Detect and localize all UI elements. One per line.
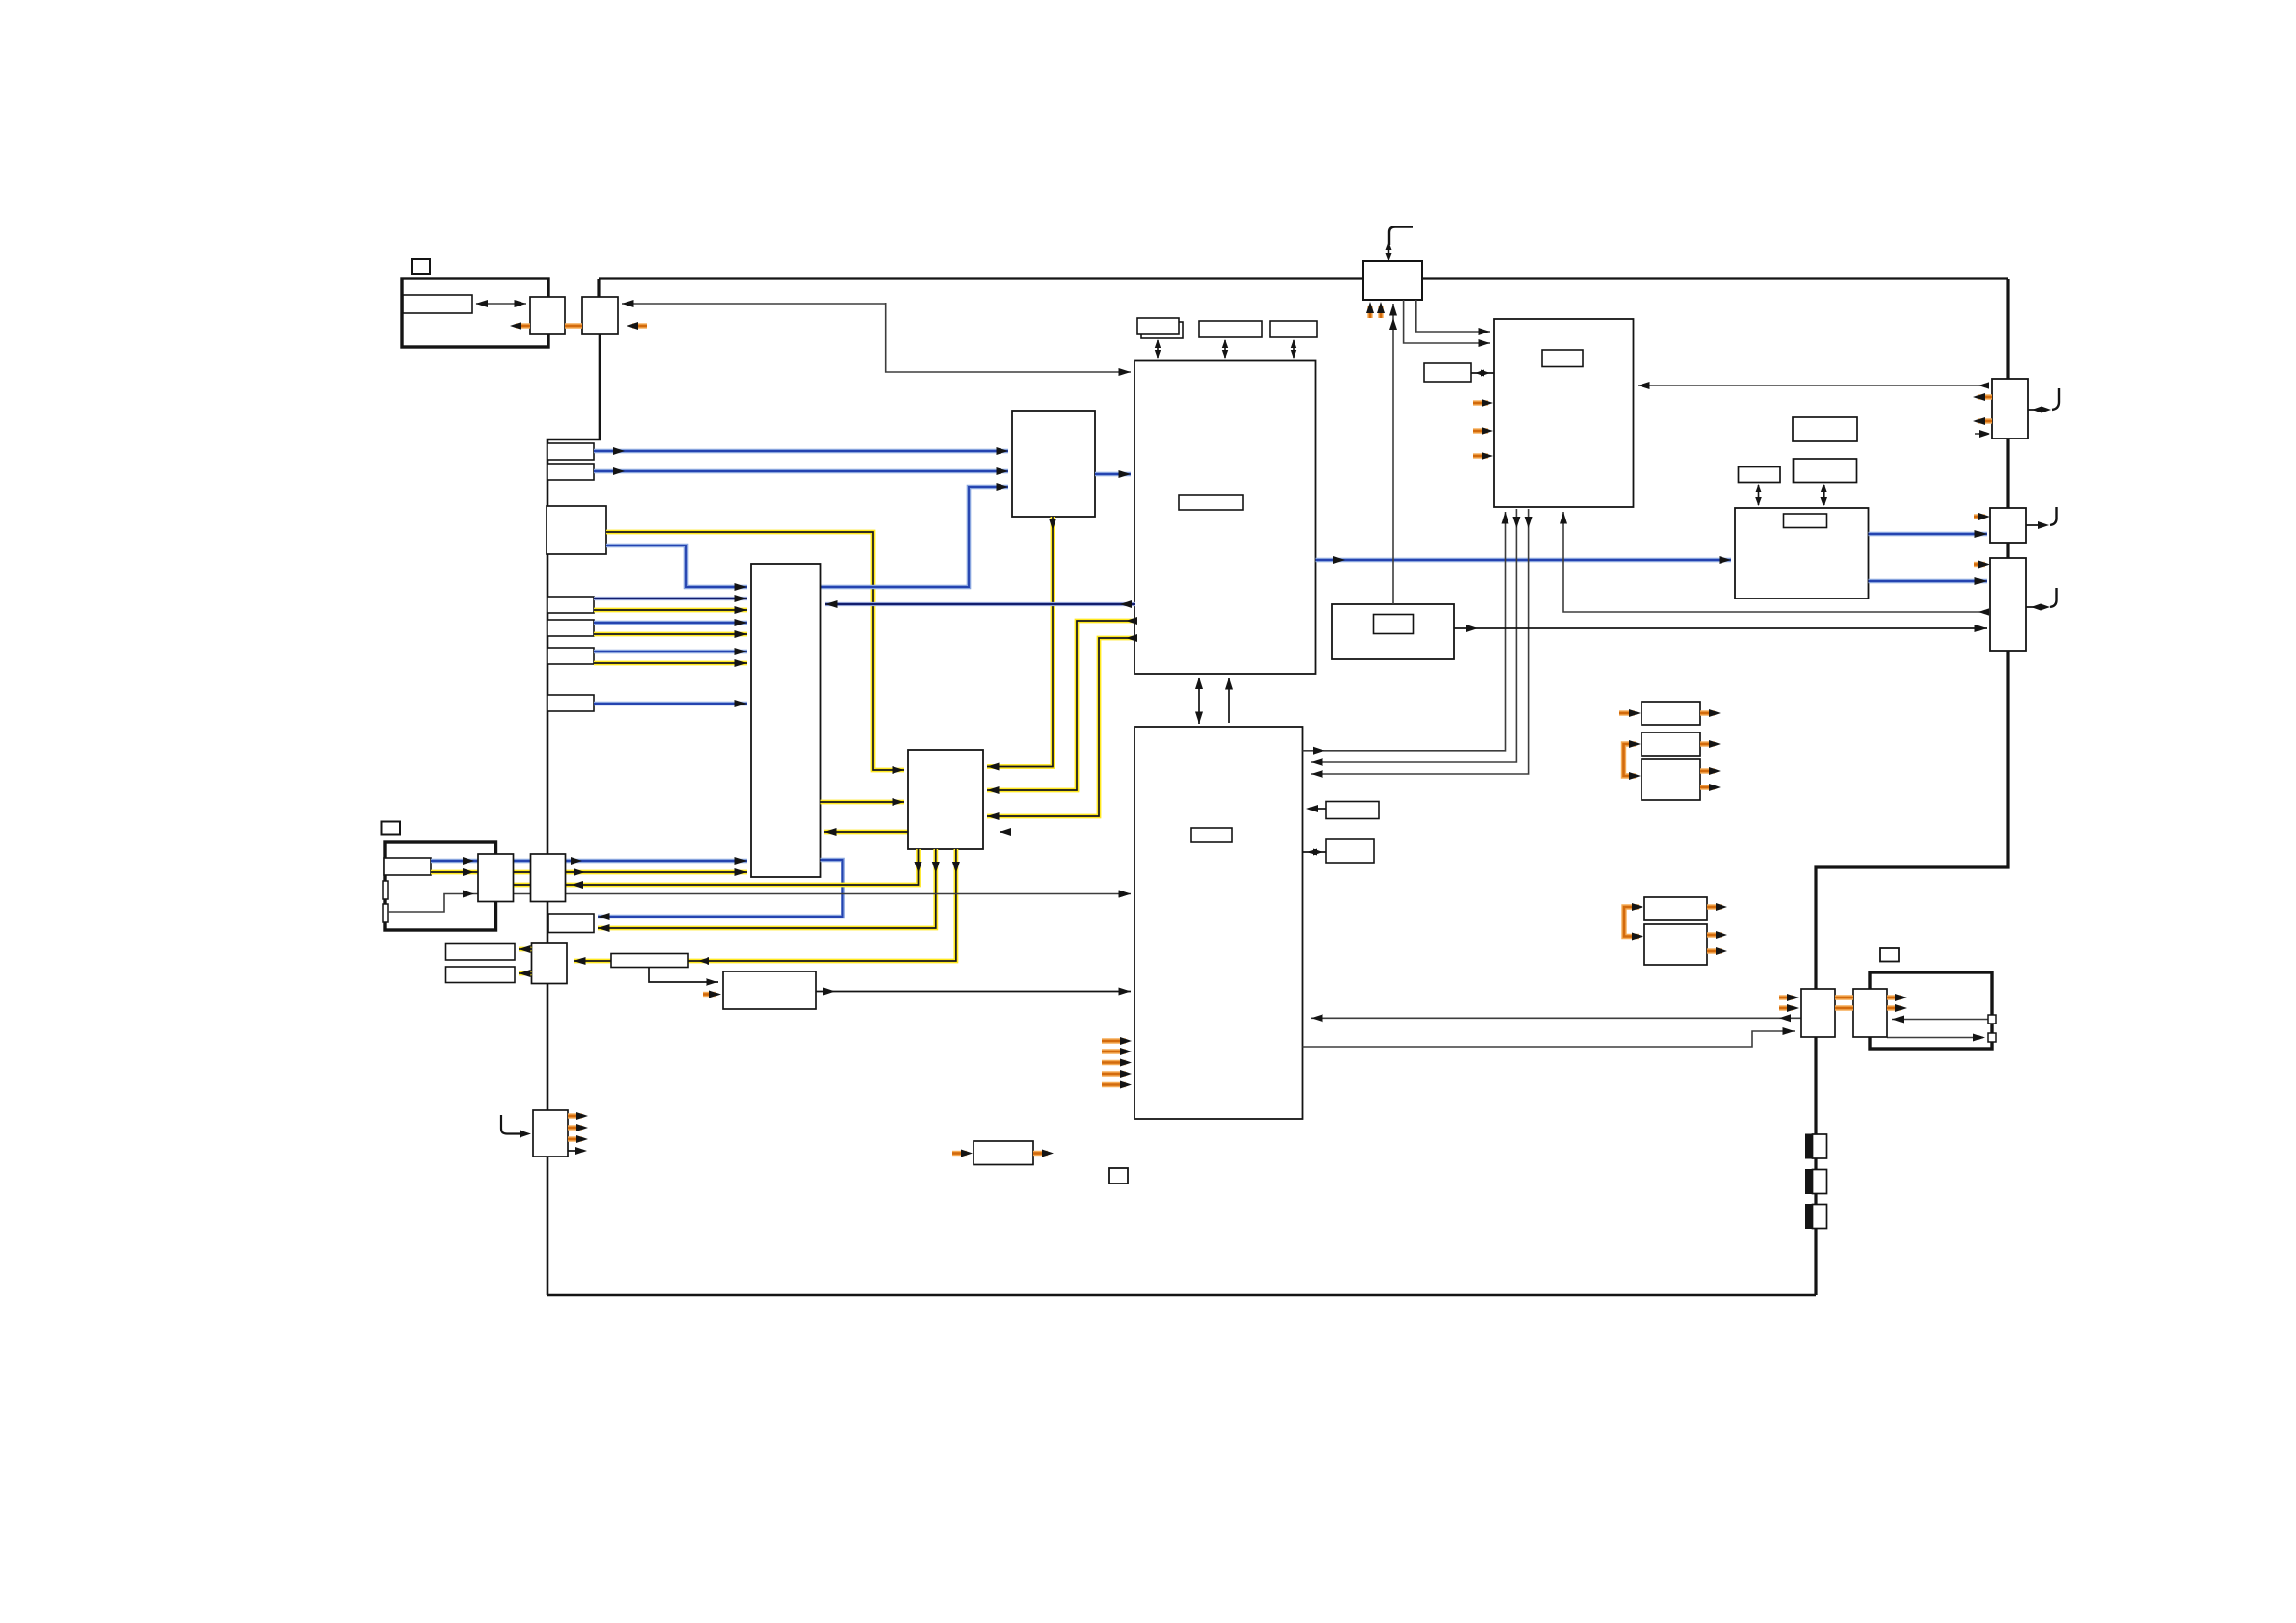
wire navy U2 to U1 bbox=[825, 602, 1135, 606]
block U2 bbox=[1135, 361, 1316, 675]
wire gray into U2 left bbox=[886, 303, 1131, 372]
connector CNb bbox=[1853, 989, 1887, 1037]
wire orange out OCE b bbox=[1707, 948, 1722, 953]
wire blue U1 loop to SB bbox=[598, 860, 843, 917]
wire dbl U6-SR2 bbox=[1303, 851, 1327, 853]
wire yellow S2b to U1 bbox=[594, 632, 747, 637]
connector SW bbox=[533, 1110, 568, 1157]
wire orange out CNb b bbox=[1887, 1005, 1901, 1010]
bold board box BB2 bbox=[385, 842, 496, 930]
small box SR2 bbox=[1326, 839, 1374, 863]
wire gray return into Bb bbox=[622, 303, 886, 305]
box OCB bbox=[1642, 732, 1700, 756]
block U4 bbox=[1012, 411, 1095, 517]
wire outer boundary bottom bbox=[547, 1294, 1816, 1297]
wire blue B_top2 to U4 bbox=[594, 469, 1008, 474]
arrowhead gray into U6 bbox=[1119, 891, 1131, 898]
stub box S3 bbox=[547, 648, 594, 664]
wire TC to RB1 upper bbox=[1416, 300, 1490, 332]
component FB3 bbox=[1806, 1205, 1813, 1229]
wire yellow U3 pin1 to P1 bbox=[391, 849, 919, 885]
wire rail RB1 to U6 b bbox=[1311, 509, 1529, 774]
wire blue B_in2 to U1 bbox=[606, 545, 747, 587]
wire orange out OCE a bbox=[1707, 932, 1722, 937]
wire blue B_top1 to U4 bbox=[594, 449, 1008, 454]
stub box SB bbox=[548, 914, 594, 933]
label box in TU bbox=[1784, 514, 1827, 528]
label box TB3 bbox=[1270, 321, 1317, 337]
wire dbl arrow TL-TU at 1891.8 bbox=[1823, 485, 1825, 505]
wire yellow U3 to U1 bbox=[824, 830, 979, 835]
wire boundary stub into connector Bb top bbox=[597, 279, 600, 299]
hook at RC3 bbox=[2050, 588, 2057, 607]
wire IB to PS bbox=[649, 968, 718, 983]
box OCA bbox=[1642, 702, 1700, 725]
wire gray pad1 to CNb bbox=[1892, 1019, 1991, 1021]
wire outer boundary right vertical bbox=[1816, 279, 2008, 1295]
inline box IB bbox=[611, 954, 688, 968]
label box L2 bbox=[382, 822, 401, 835]
wire black SW out4 bbox=[568, 1150, 580, 1152]
wire blue S3a to U1 bbox=[594, 650, 747, 654]
wire dbl MB-RB1 bbox=[1471, 372, 1494, 374]
wire dbl arrow TL-TU at 1824.5 bbox=[1758, 485, 1760, 505]
connector RC2 bbox=[1990, 508, 2026, 543]
block U3 bbox=[908, 750, 983, 849]
wire orange out OCB bbox=[1700, 741, 1715, 746]
wire orange out OCC b bbox=[1700, 785, 1715, 789]
stub box S4 bbox=[547, 695, 594, 711]
connector Bb bbox=[582, 297, 618, 334]
bold board box BB1 bbox=[402, 279, 548, 347]
wire yellow B_in2 to U3 bbox=[606, 532, 904, 770]
hook into SW bbox=[501, 1115, 525, 1134]
pad box PD1 bbox=[1988, 1015, 1996, 1024]
wire orange out Ba left bbox=[516, 323, 530, 328]
wire orange bar CN a bbox=[1835, 995, 1853, 999]
wire orange into OCA bbox=[1619, 710, 1635, 715]
wire dbl RC1-hook bbox=[2028, 409, 2047, 411]
label box TLB bbox=[1109, 1168, 1128, 1184]
inner box IR2 bbox=[384, 858, 431, 875]
wire yellow U2 to U3 a bbox=[987, 621, 1135, 790]
wire PS to U6 bbox=[816, 991, 1131, 993]
stub box B_top2 bbox=[547, 464, 594, 480]
wire navy S1a to U1 bbox=[594, 597, 747, 600]
wire RC1 to RB1 bbox=[1638, 385, 1989, 386]
pad box PD2 bbox=[1988, 1033, 1996, 1042]
wire dbl arrow TB-U2 at 1342 bbox=[1293, 340, 1295, 358]
stub box B_top1 bbox=[547, 443, 594, 460]
label box in U7 bbox=[1374, 615, 1414, 634]
bold board box BRD bbox=[1870, 972, 1992, 1049]
wire orange into Bb right bbox=[632, 323, 647, 328]
connector RC3 bbox=[1990, 558, 2026, 651]
pin box P1 bbox=[383, 881, 388, 899]
wire orange bar CN b bbox=[1835, 1005, 1853, 1010]
wire orange bar Ba-Bb bbox=[565, 323, 582, 328]
label box in U2 bbox=[1179, 495, 1243, 510]
wire yellow IR2 to U1 bbox=[431, 870, 747, 875]
wire gray stub into RC1 bbox=[1975, 433, 1986, 435]
arrowhead down on U4 yellow bbox=[1049, 519, 1056, 530]
arrowhead yellow into C2 right bbox=[572, 881, 583, 889]
wire blue U4 to U2 bbox=[1095, 472, 1131, 477]
wire orange into RC3 bbox=[1974, 562, 1985, 567]
wire gray U6 to CNa bbox=[1303, 1031, 1796, 1047]
connector C2 bbox=[531, 854, 566, 902]
hook at RC2 bbox=[2050, 507, 2057, 525]
wire orange into RB1 #2 bbox=[1473, 428, 1488, 433]
wire gray CNb to pad2 bbox=[1887, 1037, 1983, 1039]
wire SR1 to U6 bbox=[1311, 808, 1326, 810]
wire orange out BM bbox=[1033, 1151, 1048, 1156]
block TU bbox=[1735, 508, 1869, 599]
connector RC1 bbox=[1992, 379, 2028, 439]
wire yellow U2 to U3 b bbox=[987, 638, 1135, 816]
stub arrow into U3 right bbox=[1000, 828, 1011, 836]
connector C1 bbox=[478, 854, 514, 902]
block U7 bbox=[1332, 604, 1454, 659]
wire yellow S1b to U1 bbox=[594, 608, 747, 613]
wire blue S4 to U1 bbox=[594, 702, 747, 706]
box OCE bbox=[1644, 924, 1707, 965]
block RB1 bbox=[1494, 319, 1634, 507]
box OCD bbox=[1644, 897, 1707, 920]
wire rail RC3 to RB1 bbox=[1563, 512, 1987, 612]
wire outer boundary left rail bbox=[547, 334, 600, 1295]
wire blue TU to RC3 bbox=[1869, 579, 1988, 584]
label box TB1 bbox=[1137, 318, 1179, 334]
wire orange into RB1 #1 bbox=[1473, 400, 1488, 405]
wire dbl arrow TB-U2 at 1271 bbox=[1224, 340, 1226, 358]
connector CNa bbox=[1801, 989, 1835, 1037]
wire orange RC1 out a bbox=[1978, 394, 1992, 399]
wire yellow U4 to U3 bbox=[987, 517, 1053, 767]
wire orange L link D-E bbox=[1624, 907, 1639, 937]
connector Ba bbox=[530, 297, 565, 334]
wire TC to RB1 lower bbox=[1404, 300, 1490, 343]
connector C3 bbox=[532, 943, 568, 984]
wire rail U6 to RB1 up bbox=[1303, 512, 1506, 751]
wire blue S2a to U1 bbox=[594, 621, 747, 625]
wire orange into PS bbox=[703, 992, 716, 997]
wire dbl U2-U6 bbox=[1198, 678, 1200, 724]
wire yellow C3 to LB1 bbox=[519, 947, 532, 952]
wire orange into U6 #4 bbox=[1102, 1071, 1126, 1076]
wire orange SW out3 bbox=[568, 1136, 582, 1141]
label box TB1 shadow bbox=[1141, 322, 1183, 338]
wire dbl RC3-hook bbox=[2026, 606, 2043, 608]
wire orange into RC2 bbox=[1974, 514, 1985, 519]
wire orange into U6 #5 bbox=[1102, 1082, 1126, 1087]
block U1 bbox=[751, 564, 821, 877]
wire orange L link B-C bbox=[1624, 744, 1637, 776]
pin box P2 bbox=[383, 904, 388, 922]
wire blue IR2 to U1 bbox=[431, 859, 747, 864]
wire blue U2 to TU bbox=[1316, 558, 1732, 563]
arrowhead into pad2 bbox=[1973, 1034, 1985, 1042]
wire orange out OCC a bbox=[1700, 768, 1715, 773]
label box in U6 bbox=[1191, 828, 1232, 842]
label box TL2 bbox=[1739, 467, 1781, 483]
input box B_in2 bbox=[547, 506, 606, 554]
output box LB2 bbox=[446, 967, 516, 983]
small box MB bbox=[1424, 363, 1471, 382]
wire orange into U6 #2 bbox=[1102, 1049, 1126, 1053]
wire dbl arrow TB-U2 at 1201 bbox=[1157, 340, 1159, 358]
wire RC2 to hook bbox=[2026, 524, 2043, 526]
stub box S1 bbox=[547, 597, 594, 613]
arrowhead on navy near U2 bbox=[1120, 600, 1132, 608]
box OCC bbox=[1642, 759, 1700, 800]
box BM bbox=[974, 1141, 1033, 1165]
wire outer boundary top bbox=[599, 277, 2008, 279]
wire orange out OCA bbox=[1700, 710, 1715, 715]
block U6 bbox=[1135, 727, 1303, 1119]
inner box IR1 bbox=[403, 295, 472, 313]
wire rail RB1 to U6 a bbox=[1311, 509, 1516, 762]
connector TC bbox=[1363, 261, 1422, 300]
wire dbl hook-TC bbox=[1388, 247, 1390, 256]
wire yellow U1 to U3 bbox=[821, 800, 905, 805]
hook at RC1 bbox=[2052, 388, 2059, 410]
wire orange into CNa a bbox=[1779, 995, 1793, 999]
wire dbl arrow IR1-Ba bbox=[476, 303, 526, 305]
wire orange into RB1 #3 bbox=[1473, 453, 1488, 458]
wire yellow U3 pin2 to SB bbox=[598, 849, 936, 928]
wire U7 to RC3 bbox=[1454, 627, 1987, 629]
wire orange into CNa b bbox=[1779, 1005, 1793, 1010]
wire gray U7 to TC bbox=[1392, 304, 1394, 604]
wire orange SW out2 bbox=[568, 1125, 582, 1130]
wire orange into TC a bbox=[1367, 306, 1372, 318]
wire orange into BM bbox=[952, 1151, 967, 1156]
small box SR1 bbox=[1326, 802, 1379, 819]
wire yellow U3 pin3 to C3 bbox=[574, 849, 956, 961]
output box LB1 bbox=[446, 944, 516, 961]
wire up arrow U6 to U2 bbox=[1228, 678, 1230, 723]
label box TL1 bbox=[1793, 417, 1857, 441]
wire orange into U6 #1 bbox=[1102, 1038, 1126, 1043]
arrowhead into CNb bbox=[1892, 1016, 1904, 1024]
wire gray CNa to U6 bbox=[1311, 1017, 1801, 1019]
label box in RB1 bbox=[1542, 350, 1583, 367]
wire orange into TC b bbox=[1378, 306, 1383, 318]
wire yellow S3b to U1 bbox=[594, 661, 747, 666]
wire gray P2 to U6 bbox=[388, 894, 1131, 913]
hook above TC bbox=[1389, 227, 1413, 246]
wire orange RC1 out b bbox=[1978, 418, 1992, 423]
wire blue TU to RC2 bbox=[1869, 532, 1988, 537]
label box L1 bbox=[412, 259, 430, 274]
wire orange SW out1 bbox=[568, 1113, 582, 1118]
block PS bbox=[723, 971, 816, 1009]
stub box S2 bbox=[547, 620, 594, 636]
component FB2 bbox=[1806, 1170, 1813, 1194]
wire orange out OCD bbox=[1707, 904, 1722, 909]
wire blue U1 to U4 bbox=[821, 487, 1009, 587]
label box TL3 bbox=[1794, 459, 1857, 483]
wire orange into U6 #3 bbox=[1102, 1060, 1126, 1065]
label box L3 bbox=[1880, 948, 1899, 962]
label box TB2 bbox=[1199, 321, 1262, 337]
wire orange out CNb a bbox=[1887, 995, 1901, 999]
component FB1 bbox=[1806, 1134, 1813, 1158]
wire yellow C3 to LB2 bbox=[519, 971, 532, 976]
